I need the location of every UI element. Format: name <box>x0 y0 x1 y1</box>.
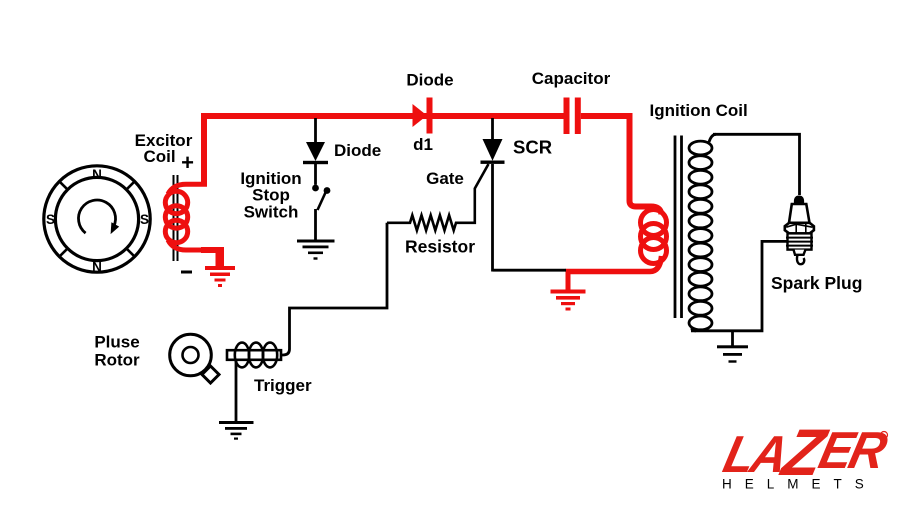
wire: SCR cathode down <box>491 164 494 272</box>
ground (trigger) <box>219 421 254 440</box>
ground (capacitor discharge, red) <box>551 271 586 311</box>
svg-text:R: R <box>882 434 886 440</box>
ground (stop switch) <box>297 240 335 260</box>
svg-text:S: S <box>46 212 55 227</box>
wire: SCR anode from rail <box>491 118 494 140</box>
excitor coil L1 (red loops) <box>165 191 187 242</box>
svg-text:Diode: Diode <box>406 71 453 90</box>
pulse rotor <box>170 334 219 383</box>
diode d1 (red) <box>413 98 433 134</box>
ground (excitor, red) <box>205 266 235 287</box>
LAZER logo <box>717 415 894 489</box>
svg-text:Diode: Diode <box>334 141 381 160</box>
ignition coil primary (red loops) <box>641 210 667 264</box>
svg-text:Gate: Gate <box>426 169 464 188</box>
wire: ignition stop switch branch from rail <box>314 118 317 143</box>
svg-text:Spark Plug: Spark Plug <box>771 273 862 293</box>
polarity - <box>181 271 192 274</box>
svg-text:S: S <box>140 212 149 227</box>
svg-text:Capacitor: Capacitor <box>532 69 611 88</box>
wire: resistor to trigger coil <box>281 223 387 355</box>
svg-text:N: N <box>92 260 102 275</box>
wire: switch to ground <box>314 209 317 240</box>
wire red: excitor coil bottom to ground <box>168 240 218 266</box>
wire: secondary top hook <box>709 134 716 142</box>
svg-text:N: N <box>92 167 102 182</box>
svg-text:HELMETS: HELMETS <box>722 477 877 492</box>
wire red: primary bottom to ground node <box>566 256 662 272</box>
gate wire <box>462 164 489 223</box>
trigger coil (pickup) <box>227 343 281 368</box>
ignition coil secondary (black loops) <box>689 141 712 330</box>
rotation arrow <box>79 200 120 234</box>
svg-text:d1: d1 <box>413 135 433 154</box>
svg-text:+: + <box>181 150 194 175</box>
capacitor C1 (red) <box>564 98 581 135</box>
svg-text:Switch: Switch <box>244 203 299 222</box>
svg-text:Pluse: Pluse <box>94 333 139 352</box>
wire red: top rail left segment with drop to excitor coil <box>204 116 564 184</box>
wire: ground stub <box>731 331 734 346</box>
wire: diode to switch <box>314 164 317 185</box>
wire red: rail right segment down to primary coil <box>581 116 662 214</box>
wire: secondary bottom hook <box>692 328 696 331</box>
SCR Q1 <box>481 139 505 164</box>
ground (ignition coil) <box>717 345 748 362</box>
svg-text:Rotor: Rotor <box>94 351 140 370</box>
wire: SCR cathode to ground node (black) <box>493 269 567 272</box>
svg-text:Trigger: Trigger <box>254 376 312 395</box>
ignition coil core <box>675 136 682 319</box>
svg-text:Ignition Coil: Ignition Coil <box>650 101 748 120</box>
wire: secondary top to spark plug <box>713 134 800 195</box>
resistor R1 <box>387 215 462 230</box>
switch lever <box>318 193 326 211</box>
svg-text:Coil: Coil <box>143 147 175 166</box>
diode (ignition stop switch) <box>303 142 328 164</box>
svg-text:Resistor: Resistor <box>405 237 475 257</box>
svg-text:SCR: SCR <box>513 137 552 158</box>
wire: coil bottom to spark plug return <box>691 241 787 330</box>
wire: trigger coil to ground <box>235 360 238 421</box>
spark plug <box>785 196 814 265</box>
flywheel magnet rotor <box>44 166 150 272</box>
switch contacts SW1 <box>312 185 319 192</box>
excitor coil core lines <box>174 175 178 261</box>
